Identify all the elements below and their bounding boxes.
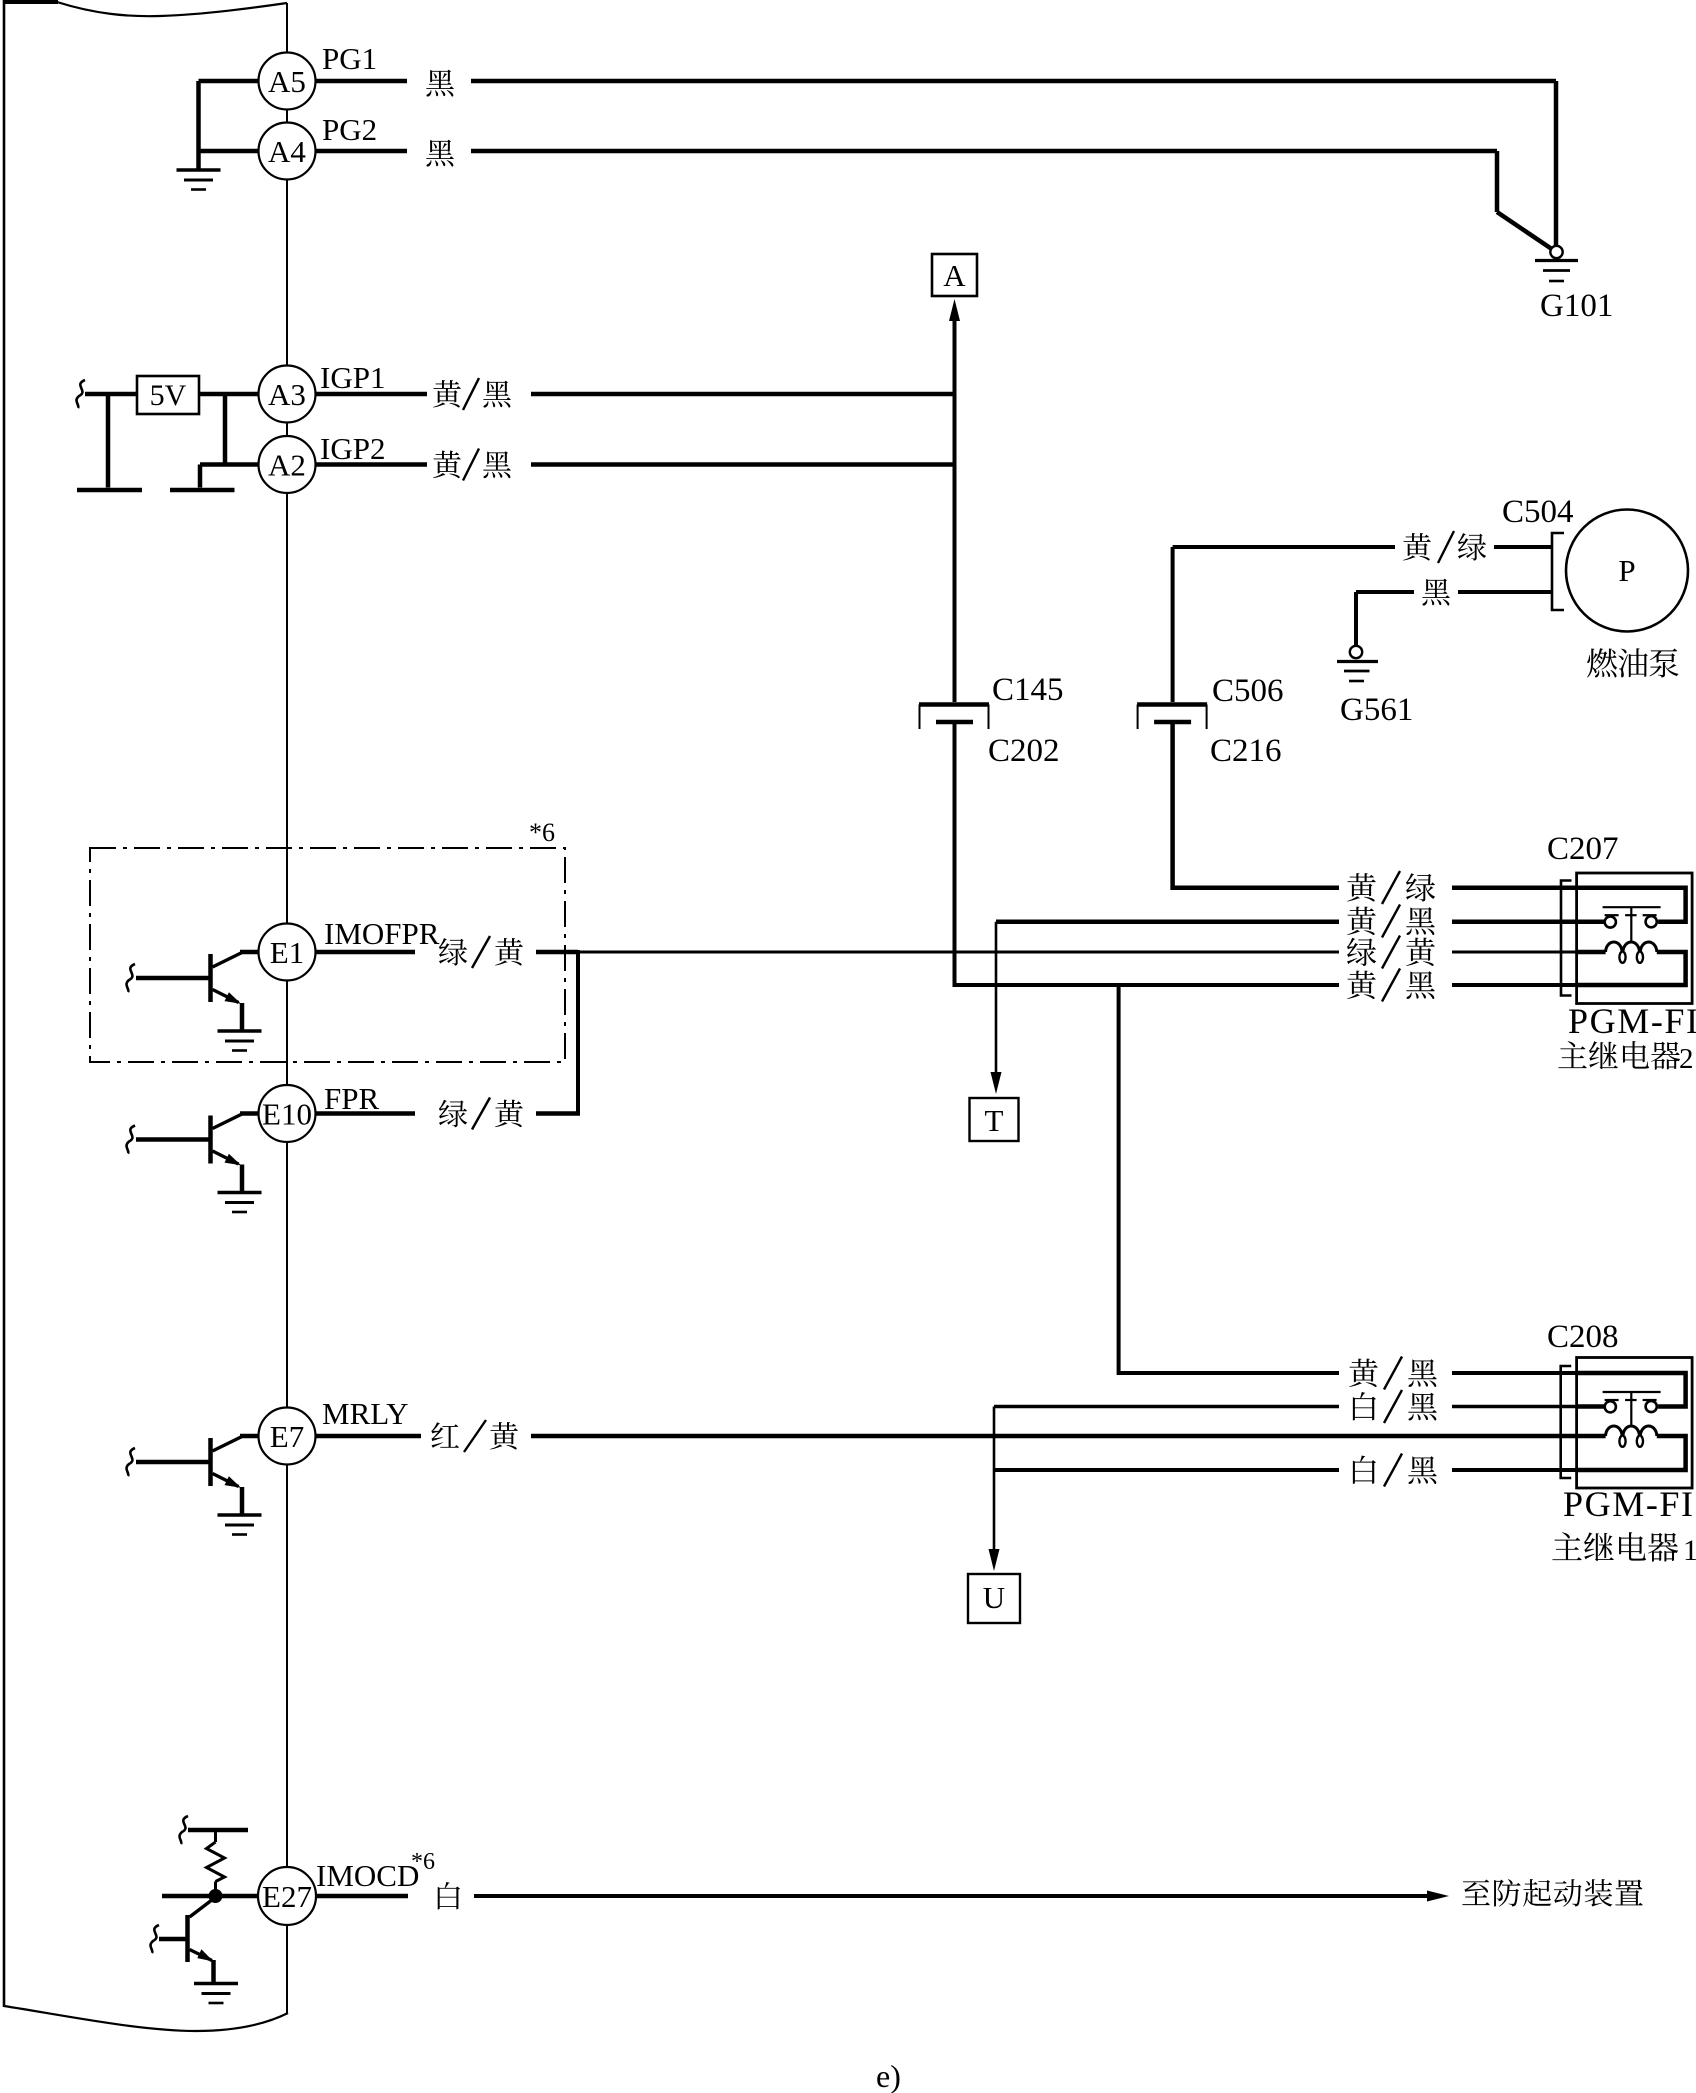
off-page connector U <box>968 1574 1020 1623</box>
off-page connector A <box>932 254 977 296</box>
label main relay 1 <box>1552 1532 1581 1560</box>
label fuel pump <box>1587 648 1617 677</box>
wire to connector U <box>993 1407 996 1554</box>
svg-text:IGP1: IGP1 <box>320 360 385 395</box>
label white/black (relay1 row4) <box>1353 1456 1376 1484</box>
svg-text:A2: A2 <box>268 448 306 483</box>
resistor R1 (IMOCD pull-up) <box>214 1830 217 1842</box>
capacitor plate (right) <box>198 465 203 488</box>
label green/yellow (relay2 row3) <box>1347 938 1376 966</box>
label black (pump) <box>1422 579 1450 606</box>
wire below C216 <box>1173 722 1339 888</box>
label white/black (relay1 row2) <box>1353 1392 1376 1420</box>
wire fuel pump - black <box>1356 590 1414 594</box>
label black (PG2) <box>426 140 454 167</box>
wire PG2 pin A4 to ground <box>199 149 259 154</box>
wire PG2 black <box>316 149 408 154</box>
label yellow/black (relay2 row4) <box>1347 971 1376 999</box>
label main relay 2 <box>1558 1041 1586 1068</box>
svg-text:G101: G101 <box>1540 288 1613 324</box>
svg-text:C202: C202 <box>988 733 1060 769</box>
capacitor plate (left) <box>106 394 111 488</box>
wire 5V input <box>77 380 85 408</box>
wire IMOFPR green/yellow <box>316 950 416 955</box>
wire pull-up feed <box>180 1816 188 1844</box>
pin E7 <box>259 1408 316 1465</box>
node: ECM connector pin line <box>286 3 288 2013</box>
label yellow/black (IGP1) <box>433 380 461 407</box>
wire FPR green/yellow <box>316 1111 416 1116</box>
svg-text:E10: E10 <box>262 1097 312 1132</box>
label white (IMOCD) <box>438 1882 460 1909</box>
svg-text:IGP2: IGP2 <box>320 431 385 466</box>
off-page connector T <box>970 1098 1019 1141</box>
svg-text:2: 2 <box>1679 1043 1694 1075</box>
ground (ECM internal, A5/A4) <box>177 168 221 172</box>
wire IGP1 yellow/black <box>316 392 428 397</box>
wire relay1 contact white/black (row4) <box>994 1468 1339 1472</box>
wire to pin A2 <box>200 462 259 467</box>
wire relay1 row1 feed yellow/black <box>1119 985 1339 1373</box>
ground G101 <box>1550 246 1562 258</box>
wire fuel pump + yellow/green <box>1173 545 1395 549</box>
regulator 5V <box>137 376 199 414</box>
wire base node to pin E27 <box>162 1894 259 1899</box>
svg-text:e): e) <box>876 2058 901 2093</box>
svg-text:A3: A3 <box>268 377 306 412</box>
relay U1: PGM-FI main relay 1 <box>1577 1358 1693 1489</box>
svg-text:E1: E1 <box>270 935 304 970</box>
pin E27 <box>258 1867 316 1925</box>
wire IMOCD white <box>316 1894 409 1899</box>
wire to connector A <box>949 299 960 321</box>
wire FPR joins IMOFPR <box>576 950 580 1114</box>
pin A5 <box>259 53 316 110</box>
svg-text:C207: C207 <box>1547 831 1619 867</box>
svg-text:C216: C216 <box>1210 733 1282 769</box>
wire ground drop <box>196 81 201 170</box>
wire PG1 pin A5 to ground <box>199 79 259 84</box>
wire relay2 coil feed yellow/black <box>996 919 1339 924</box>
connector C208 <box>1561 1366 1572 1478</box>
wire: ECM torn bottom edge <box>4 2006 288 2031</box>
svg-text:5V: 5V <box>150 379 187 412</box>
wire IGP2 yellow/black <box>316 462 428 467</box>
connector C207 <box>1561 881 1572 996</box>
wire to connector T <box>995 922 998 1076</box>
transistor Q1 (IMOFPR driver) <box>208 954 213 1002</box>
connector C504 <box>1552 533 1564 610</box>
wire fuel pump feed vertical <box>1171 547 1175 702</box>
transistor Q4 (IMOCD driver) <box>185 1915 190 1962</box>
label yellow/green (relay2 row1) <box>1347 873 1376 901</box>
wire relay1 contact white/black (row2) <box>994 1405 1339 1409</box>
pin A4 <box>259 123 316 180</box>
svg-text:G561: G561 <box>1340 692 1413 728</box>
transistor Q3 (MRLY driver) <box>208 1438 213 1486</box>
svg-text:A5: A5 <box>268 64 306 99</box>
svg-text:IMOFPR: IMOFPR <box>324 916 440 951</box>
svg-text:C145: C145 <box>992 672 1064 708</box>
svg-text:PG2: PG2 <box>322 112 377 147</box>
label green/yellow (FPR) <box>439 1100 467 1127</box>
svg-text:T: T <box>985 1103 1004 1138</box>
transistor Q2 (FPR driver) <box>208 1116 213 1164</box>
relay U2: PGM-FI main relay 2 <box>1577 873 1693 1004</box>
dashed option box *6 <box>90 848 565 1062</box>
svg-text:A: A <box>943 258 966 293</box>
node: E27 base node <box>209 1889 223 1903</box>
svg-text:1: 1 <box>1683 1534 1696 1567</box>
svg-text:E7: E7 <box>270 1419 304 1454</box>
wire MRLY red/yellow <box>316 1434 422 1439</box>
svg-text:*6: *6 <box>529 818 555 847</box>
pin E1 <box>259 924 316 981</box>
svg-text:PGM-FI: PGM-FI <box>1563 1484 1695 1524</box>
svg-text:P: P <box>1618 553 1635 588</box>
wire: ECM left border <box>3 0 6 2007</box>
svg-text:MRLY: MRLY <box>322 1396 408 1431</box>
wire branch to A2 <box>223 394 228 465</box>
connector C145/C202 <box>919 702 989 707</box>
wire: ECM torn top edge <box>4 0 58 4</box>
svg-text:C504: C504 <box>1502 494 1574 530</box>
svg-text:PGM-FI: PGM-FI <box>1568 1001 1696 1041</box>
svg-text:E27: E27 <box>262 1879 312 1914</box>
connector C506/C216 <box>1137 702 1207 707</box>
label: to immobilizer <box>1462 1879 1490 1905</box>
svg-text:FPR: FPR <box>324 1081 379 1116</box>
label yellow/green (pump) <box>1403 533 1431 560</box>
svg-text:C506: C506 <box>1212 673 1284 709</box>
wire 5V output to A3 <box>199 392 259 397</box>
fuel pump P <box>1566 510 1688 632</box>
wire below C202 <box>955 722 1340 985</box>
svg-text:A4: A4 <box>268 134 306 169</box>
svg-text:PG1: PG1 <box>322 41 377 76</box>
pin E10 <box>259 1085 316 1142</box>
svg-text:C208: C208 <box>1547 1319 1619 1355</box>
svg-text:U: U <box>983 1580 1005 1615</box>
svg-text:*6: *6 <box>411 1849 435 1875</box>
label green/yellow (IMOFPR) <box>439 938 467 965</box>
svg-text:IMOCD: IMOCD <box>316 1858 419 1893</box>
label yellow/black (IGP2) <box>433 451 461 478</box>
label yellow/black (relay1 row1) <box>1349 1359 1378 1387</box>
label black (PG1) <box>426 70 454 97</box>
pin A3 <box>259 366 316 423</box>
label yellow/black (relay2 row2) <box>1347 907 1376 935</box>
wire PG1 black <box>316 79 408 84</box>
label red/yellow (MRLY) <box>431 1422 459 1448</box>
pin A2 <box>259 436 316 493</box>
ground G561 <box>1350 646 1362 658</box>
